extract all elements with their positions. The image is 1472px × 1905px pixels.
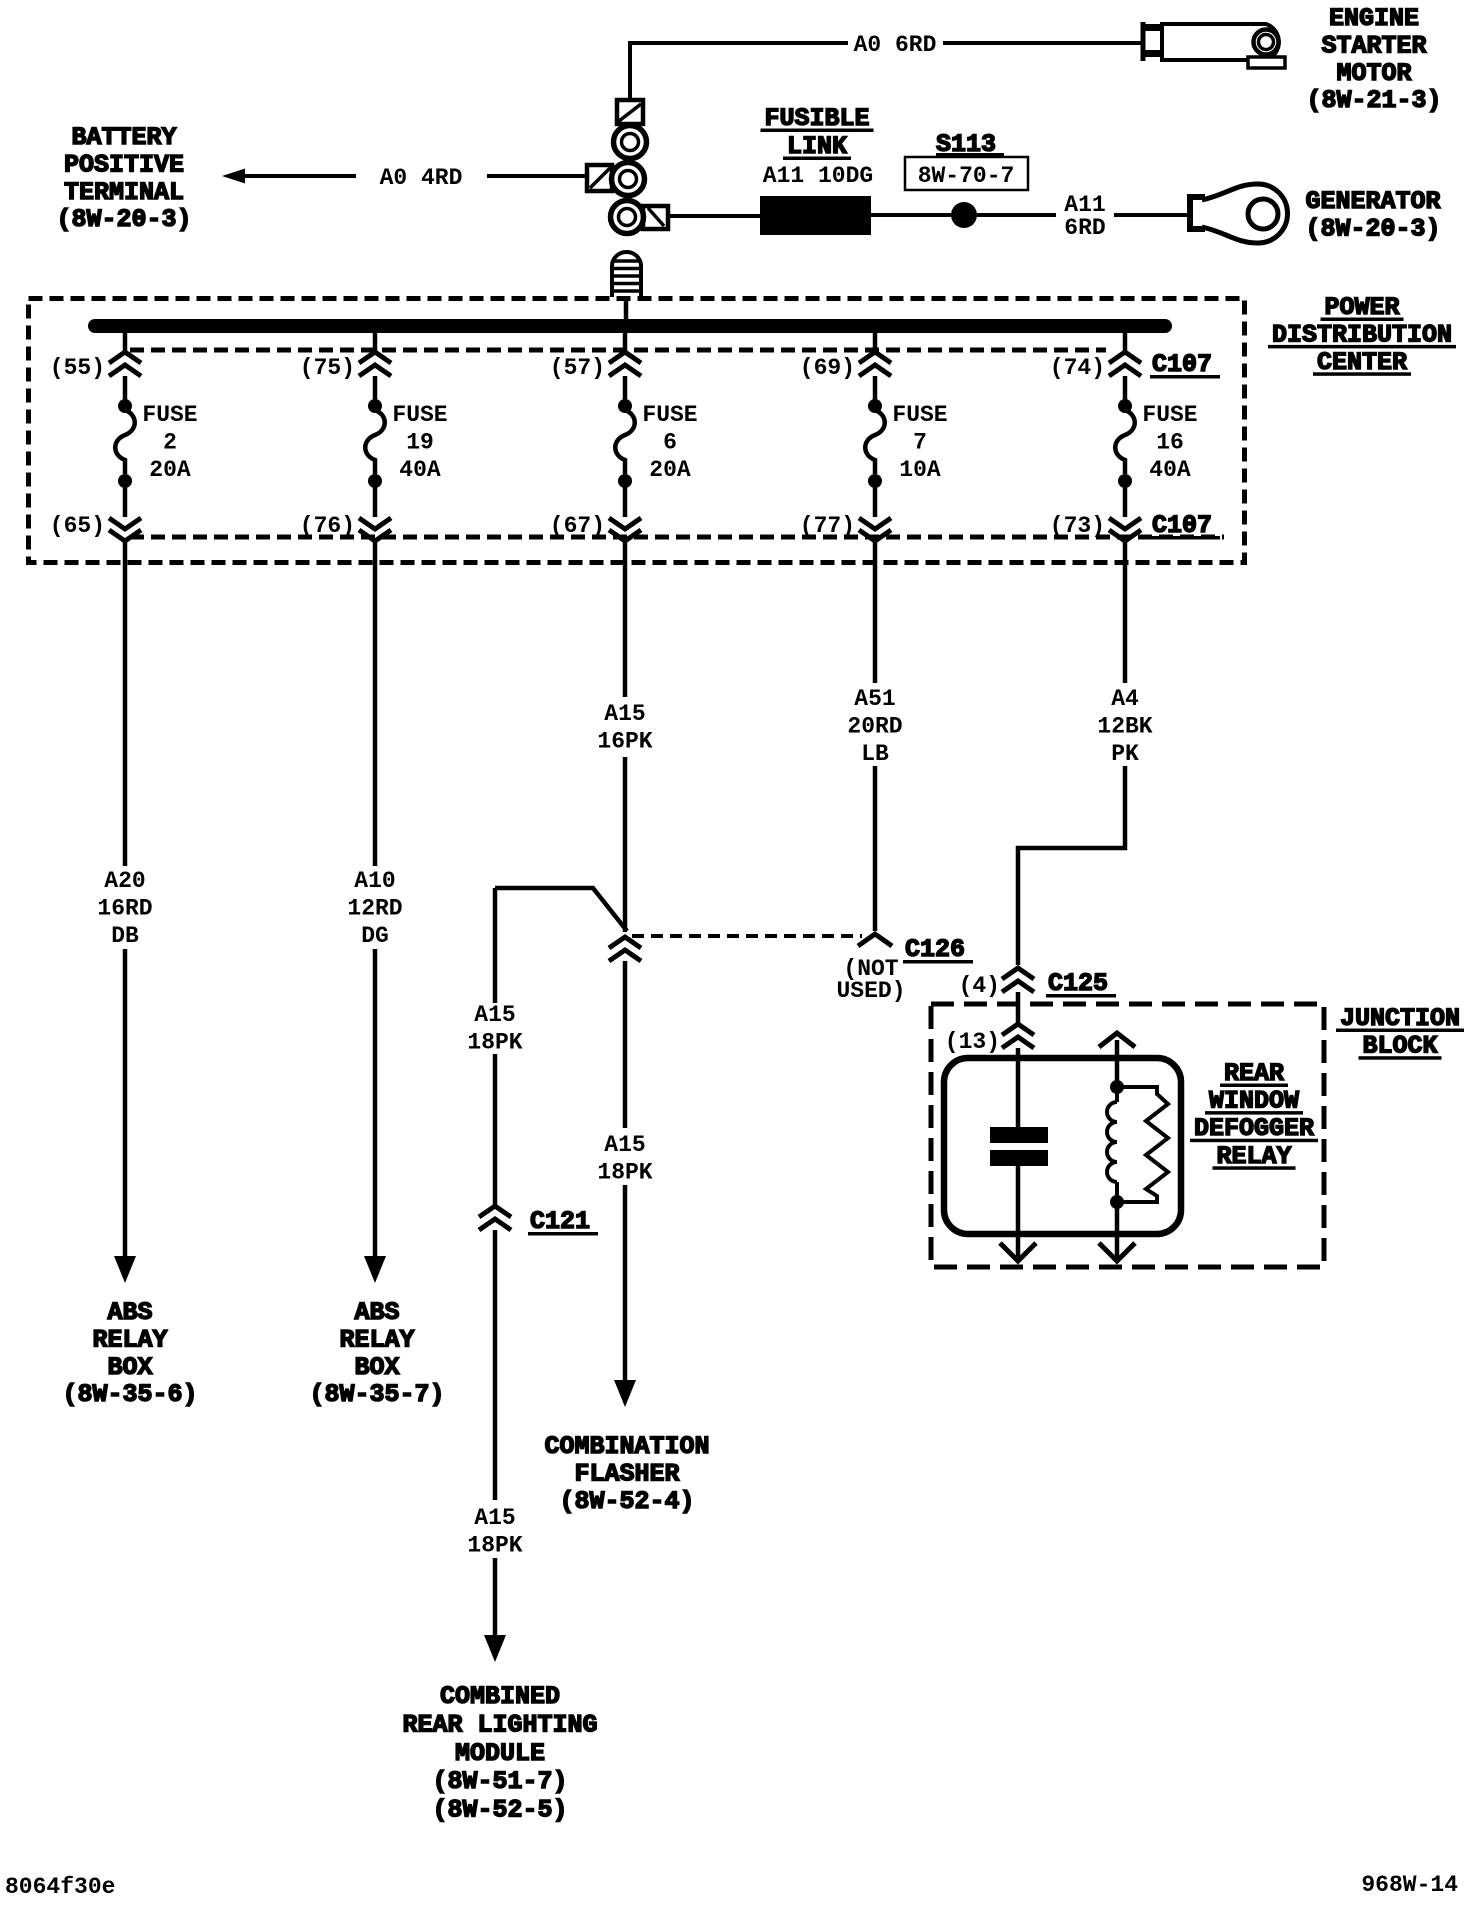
wire A15 16PK (upper) xyxy=(623,563,628,697)
svg-text:COMBINATION: COMBINATION xyxy=(544,1432,709,1461)
svg-text:A10: A10 xyxy=(354,868,395,894)
label A4 12BK PK xyxy=(1097,686,1152,767)
wire: bus bar to fuse 3 cavity connector xyxy=(623,331,628,352)
svg-text:A20: A20 xyxy=(104,868,145,894)
wire A15 18PK branch (middle) xyxy=(493,1054,498,1206)
svg-text:16: 16 xyxy=(1156,430,1184,456)
svg-text:(8W-20-3): (8W-20-3) xyxy=(1305,214,1440,243)
label (NOT USED) xyxy=(836,956,905,1004)
svg-text:(76): (76) xyxy=(300,513,355,539)
svg-text:18PK: 18PK xyxy=(467,1029,522,1055)
label A15 16PK xyxy=(597,701,652,754)
svg-text:(67): (67) xyxy=(550,513,605,539)
relay contact plates xyxy=(990,1127,1048,1166)
open arrowhead (down) on relay left leg xyxy=(1000,1243,1036,1261)
connector cavity (77) C107 (double chevron) xyxy=(859,518,891,541)
wire: ring stack to fusible link xyxy=(668,214,762,218)
label: ENGINE STARTER MOTOR (8W-21-3) xyxy=(1306,4,1441,115)
wire A4 12BK PK (upper) xyxy=(1123,563,1128,683)
svg-text:A4: A4 xyxy=(1111,686,1139,712)
svg-text:(55): (55) xyxy=(50,355,105,381)
svg-text:(73): (73) xyxy=(1050,513,1105,539)
wire: relay coil feed xyxy=(1016,1048,1021,1127)
svg-text:19: 19 xyxy=(406,430,434,456)
svg-text:18PK: 18PK xyxy=(467,1532,522,1558)
svg-text:20A: 20A xyxy=(649,457,691,483)
svg-text:FUSE: FUSE xyxy=(892,402,947,428)
svg-text:BOX: BOX xyxy=(354,1353,399,1382)
terminal stack: right slashed lug xyxy=(643,206,668,229)
power distribution center outer dashed box xyxy=(29,299,1245,563)
label FUSE 6 20A xyxy=(642,402,697,483)
terminal stack: ring 3 xyxy=(611,201,644,234)
wire: fusible link to splice S113 xyxy=(871,213,952,217)
arrowhead to ABS relay box (8W-35-6) xyxy=(114,1256,136,1283)
wire A0 6RD (right segment) xyxy=(943,41,1143,45)
wire A15 18PK to flasher (upper) xyxy=(623,961,628,1128)
label A51 20RD LB xyxy=(847,686,902,767)
connector C121 (double chevron) xyxy=(479,1206,511,1230)
svg-text:C107: C107 xyxy=(1152,350,1212,379)
label A15 18PK (branch upper) xyxy=(467,1002,522,1055)
connector C125 (double chevron) xyxy=(1002,968,1034,992)
arrow to battery positive terminal xyxy=(222,169,245,184)
wire A51 20RD LB (lower) xyxy=(873,766,878,931)
wire: bus bar to fuse 5 cavity connector xyxy=(1123,331,1128,352)
svg-text:(57): (57) xyxy=(550,355,605,381)
svg-text:REAR LIGHTING: REAR LIGHTING xyxy=(402,1710,597,1739)
dashed wire to C126 xyxy=(632,934,862,938)
svg-text:20RD: 20RD xyxy=(847,713,902,739)
svg-text:(4): (4) xyxy=(959,973,1000,999)
svg-text:(77): (77) xyxy=(800,513,855,539)
svg-text:(8W-51-7): (8W-51-7) xyxy=(432,1767,567,1796)
label: ABS RELAY BOX (8W-35-6) xyxy=(62,1298,197,1409)
svg-text:RELAY: RELAY xyxy=(339,1325,414,1354)
svg-text:(8W-52-4): (8W-52-4) xyxy=(559,1487,694,1516)
svg-text:40A: 40A xyxy=(1149,457,1191,483)
svg-text:MODULE: MODULE xyxy=(455,1739,545,1768)
svg-text:(74): (74) xyxy=(1050,355,1105,381)
svg-text:(8W-52-5): (8W-52-5) xyxy=(432,1796,567,1825)
svg-text:FUSE: FUSE xyxy=(642,402,697,428)
relay resistor (zigzag) xyxy=(1117,1087,1168,1202)
svg-text:8W-70-7: 8W-70-7 xyxy=(918,163,1015,189)
in-line connector on A15 (double chevron) xyxy=(609,937,641,961)
svg-text:FLASHER: FLASHER xyxy=(574,1459,679,1488)
svg-text:968W-14: 968W-14 xyxy=(1361,1872,1458,1898)
svg-text:(65): (65) xyxy=(50,513,105,539)
wire: C125 into junction block xyxy=(1016,992,1021,1024)
svg-text:TERMINAL: TERMINAL xyxy=(64,178,184,207)
arrowhead to combination flasher xyxy=(614,1380,636,1407)
wire A0 6RD: corner + left segment xyxy=(630,43,848,100)
relay coil xyxy=(1107,1087,1117,1202)
bolt stud into power distribution center xyxy=(612,252,641,297)
svg-text:10A: 10A xyxy=(899,457,941,483)
wire A15 18PK branch (lower) xyxy=(493,1230,498,1500)
svg-text:A0 4RD: A0 4RD xyxy=(380,165,463,191)
junction dot (top of coil/resistor) xyxy=(1110,1080,1124,1094)
svg-text:18PK: 18PK xyxy=(597,1159,652,1185)
label A15 18PK (branch lower) xyxy=(467,1505,522,1558)
label FUSE 2 20A xyxy=(142,402,197,483)
wire: fuse 2 output through PDC box edge xyxy=(373,541,378,563)
wire: fuse 4 output through PDC box edge xyxy=(873,541,878,563)
fuse 1 element: wire, dots and squiggle xyxy=(115,376,135,517)
wire A20 16RD DB (lower) xyxy=(123,949,128,1257)
svg-text:ABS: ABS xyxy=(107,1298,152,1327)
svg-text:FUSE: FUSE xyxy=(392,402,447,428)
connector cavity (55) C107 (double chevron) xyxy=(109,352,141,376)
generator ring terminal icon xyxy=(1190,184,1288,243)
connector cavity (57) C107 (double chevron) xyxy=(609,352,641,376)
wire A20 16RD DB (upper) xyxy=(123,563,128,866)
wire A10 12RD DG (upper) xyxy=(373,563,378,866)
splice S113 dot xyxy=(951,202,977,228)
svg-text:16PK: 16PK xyxy=(597,728,652,754)
wire A15 18PK to flasher (lower) xyxy=(623,1185,628,1380)
terminal stack: ring 1 xyxy=(614,126,647,159)
fuse 4 element: wire, dots and squiggle xyxy=(865,376,885,517)
junction block dashed box xyxy=(931,1004,1324,1267)
connector cavity (73) C107 (double chevron) xyxy=(1109,518,1141,541)
wire A11 6RD (left segment) xyxy=(977,213,1056,217)
label A11 6RD xyxy=(1064,192,1105,241)
label FUSE 7 10A xyxy=(892,402,947,483)
label: GENERATOR (8W-20-3) xyxy=(1305,187,1440,243)
label A20 16RD DB xyxy=(97,868,152,949)
svg-text:(8W-21-3): (8W-21-3) xyxy=(1306,86,1441,115)
svg-text:C125: C125 xyxy=(1048,969,1108,998)
junction block cavity 13 connector (double chevron) xyxy=(1002,1024,1034,1048)
svg-text:BATTERY: BATTERY xyxy=(71,123,176,152)
label: JUNCTION BLOCK xyxy=(1336,1004,1464,1061)
wire: stud to bus bar xyxy=(624,297,629,321)
label A15 18PK (flasher feed) xyxy=(597,1132,652,1185)
svg-text:2: 2 xyxy=(163,430,177,456)
label FUSE 19 40A xyxy=(392,402,447,483)
svg-text:FUSE: FUSE xyxy=(1142,402,1197,428)
wire: bus bar to fuse 2 cavity connector xyxy=(373,331,378,352)
wire: bus bar to fuse 4 cavity connector xyxy=(873,331,878,352)
svg-text:STARTER: STARTER xyxy=(1321,31,1426,60)
svg-text:A15: A15 xyxy=(604,701,645,727)
svg-text:PK: PK xyxy=(1111,741,1139,767)
svg-text:8064f30e: 8064f30e xyxy=(5,1874,115,1900)
label A10 12RD DG xyxy=(347,868,402,949)
label: COMBINATION FLASHER (8W-52-4) xyxy=(544,1432,709,1516)
svg-text:(8W-20-3): (8W-20-3) xyxy=(56,205,191,234)
branch: horizontal + diagonal splice to A15 18PK xyxy=(495,888,627,931)
wire: fuse 5 output through PDC box edge xyxy=(1123,541,1128,563)
svg-text:ENGINE: ENGINE xyxy=(1329,4,1419,33)
wire: relay right leg lower xyxy=(1115,1202,1120,1258)
label: ABS RELAY BOX (8W-35-7) xyxy=(309,1298,444,1409)
svg-text:A51: A51 xyxy=(854,686,895,712)
terminal stack: ring 2 xyxy=(612,163,645,196)
wire: fuse 3 output through PDC box edge xyxy=(623,541,628,563)
svg-text:20A: 20A xyxy=(149,457,191,483)
wire A0 4RD (left segment) xyxy=(244,174,356,178)
svg-text:DB: DB xyxy=(111,923,139,949)
wire A0 4RD (right segment) xyxy=(487,174,588,178)
label FUSE 16 40A xyxy=(1142,402,1197,483)
wire: bus bar to fuse 1 cavity connector xyxy=(123,331,128,352)
open arrowhead (up) on relay right leg xyxy=(1099,1033,1135,1047)
connector cavity (75) C107 (double chevron) xyxy=(359,352,391,376)
svg-text:(75): (75) xyxy=(300,355,355,381)
arrowhead to combined rear lighting module xyxy=(484,1635,506,1662)
svg-text:A15: A15 xyxy=(604,1132,645,1158)
label: POWER DISTRIBUTION CENTER xyxy=(1268,293,1456,377)
label: BATTERY POSITIVE TERMINAL (8W-20-3) xyxy=(56,123,191,234)
svg-text:12RD: 12RD xyxy=(347,895,402,921)
svg-text:C126: C126 xyxy=(905,935,965,964)
label: COMBINED REAR LIGHTING MODULE xyxy=(402,1682,597,1825)
wire: relay output down xyxy=(1016,1166,1021,1258)
svg-text:A11 10DG: A11 10DG xyxy=(763,163,873,189)
svg-text:(8W-35-6): (8W-35-6) xyxy=(62,1380,197,1409)
fuse 5 element: wire, dots and squiggle xyxy=(1115,376,1135,517)
connector C126 (single chevron, not used) xyxy=(858,934,892,946)
wire A51 20RD LB (upper) xyxy=(873,563,878,683)
svg-text:POSITIVE: POSITIVE xyxy=(64,150,184,179)
connector cavity (74) C107 (double chevron) xyxy=(1109,352,1141,376)
terminal stack: left slashed lug xyxy=(587,165,612,191)
junction dot (bottom of coil/resistor) xyxy=(1110,1195,1124,1209)
svg-text:A0 6RD: A0 6RD xyxy=(854,32,937,58)
svg-text:LB: LB xyxy=(861,741,889,767)
wire A10 12RD DG (lower) xyxy=(373,949,378,1257)
reference box 8W-70-7 xyxy=(905,157,1028,190)
svg-text:16RD: 16RD xyxy=(97,895,152,921)
svg-text:A15: A15 xyxy=(474,1505,515,1531)
svg-text:COMBINED: COMBINED xyxy=(440,1682,560,1711)
svg-text:USED): USED) xyxy=(836,978,905,1004)
svg-text:C121: C121 xyxy=(530,1207,590,1236)
connector cavity (76) C107 (double chevron) xyxy=(359,518,391,541)
rear window defogger relay outline xyxy=(944,1058,1181,1234)
svg-text:7: 7 xyxy=(913,430,927,456)
svg-text:FUSE: FUSE xyxy=(142,402,197,428)
svg-text:RELAY: RELAY xyxy=(92,1325,167,1354)
wire: fuse 1 output through PDC box edge xyxy=(123,541,128,563)
engine starter motor eyelet terminal icon xyxy=(1143,22,1285,68)
arrowhead to ABS relay box (8W-35-7) xyxy=(364,1256,386,1283)
connector cavity (67) C107 (double chevron) xyxy=(609,518,641,541)
connector cavity (65) C107 (double chevron) xyxy=(109,518,141,541)
wire: relay right leg upper xyxy=(1115,1040,1120,1087)
wire A11 6RD (right segment) xyxy=(1114,213,1188,217)
fuse 2 element: wire, dots and squiggle xyxy=(365,376,385,517)
svg-text:DG: DG xyxy=(361,923,389,949)
svg-text:12BK: 12BK xyxy=(1097,713,1152,739)
terminal stack: top slashed lug xyxy=(617,100,643,124)
PDC inner dashed line (bottom) xyxy=(130,535,1224,540)
wire A15 18PK branch (bottom) xyxy=(493,1558,498,1636)
label: REAR WINDOW DEFOGGER RELAY xyxy=(1190,1059,1318,1171)
svg-text:(13): (13) xyxy=(945,1029,1000,1055)
open arrowhead (down) on relay right leg xyxy=(1099,1243,1135,1261)
svg-text:GENERATOR: GENERATOR xyxy=(1305,187,1440,216)
svg-text:A15: A15 xyxy=(474,1002,515,1028)
svg-text:BOX: BOX xyxy=(107,1353,152,1382)
svg-text:MOTOR: MOTOR xyxy=(1336,59,1411,88)
PDC bus bar xyxy=(88,319,1172,333)
PDC inner dashed line (top) xyxy=(130,348,1106,353)
wire A15 18PK branch (upper) xyxy=(493,888,498,1003)
fusible link body xyxy=(760,196,871,235)
wire A15 16PK (middle) xyxy=(623,757,628,932)
wire A4 12BK PK: down, jog left, down to C125 xyxy=(1018,766,1125,965)
svg-text:C107: C107 xyxy=(1152,511,1212,540)
svg-text:6RD: 6RD xyxy=(1064,215,1105,241)
svg-text:(69): (69) xyxy=(800,355,855,381)
connector cavity (69) C107 (double chevron) xyxy=(859,352,891,376)
label: FUSIBLE LINK xyxy=(761,104,874,161)
fuse 3 element: wire, dots and squiggle xyxy=(615,376,635,517)
svg-text:40A: 40A xyxy=(399,457,441,483)
svg-text:ABS: ABS xyxy=(354,1298,399,1327)
svg-text:(8W-35-7): (8W-35-7) xyxy=(309,1380,444,1409)
svg-text:6: 6 xyxy=(663,430,677,456)
